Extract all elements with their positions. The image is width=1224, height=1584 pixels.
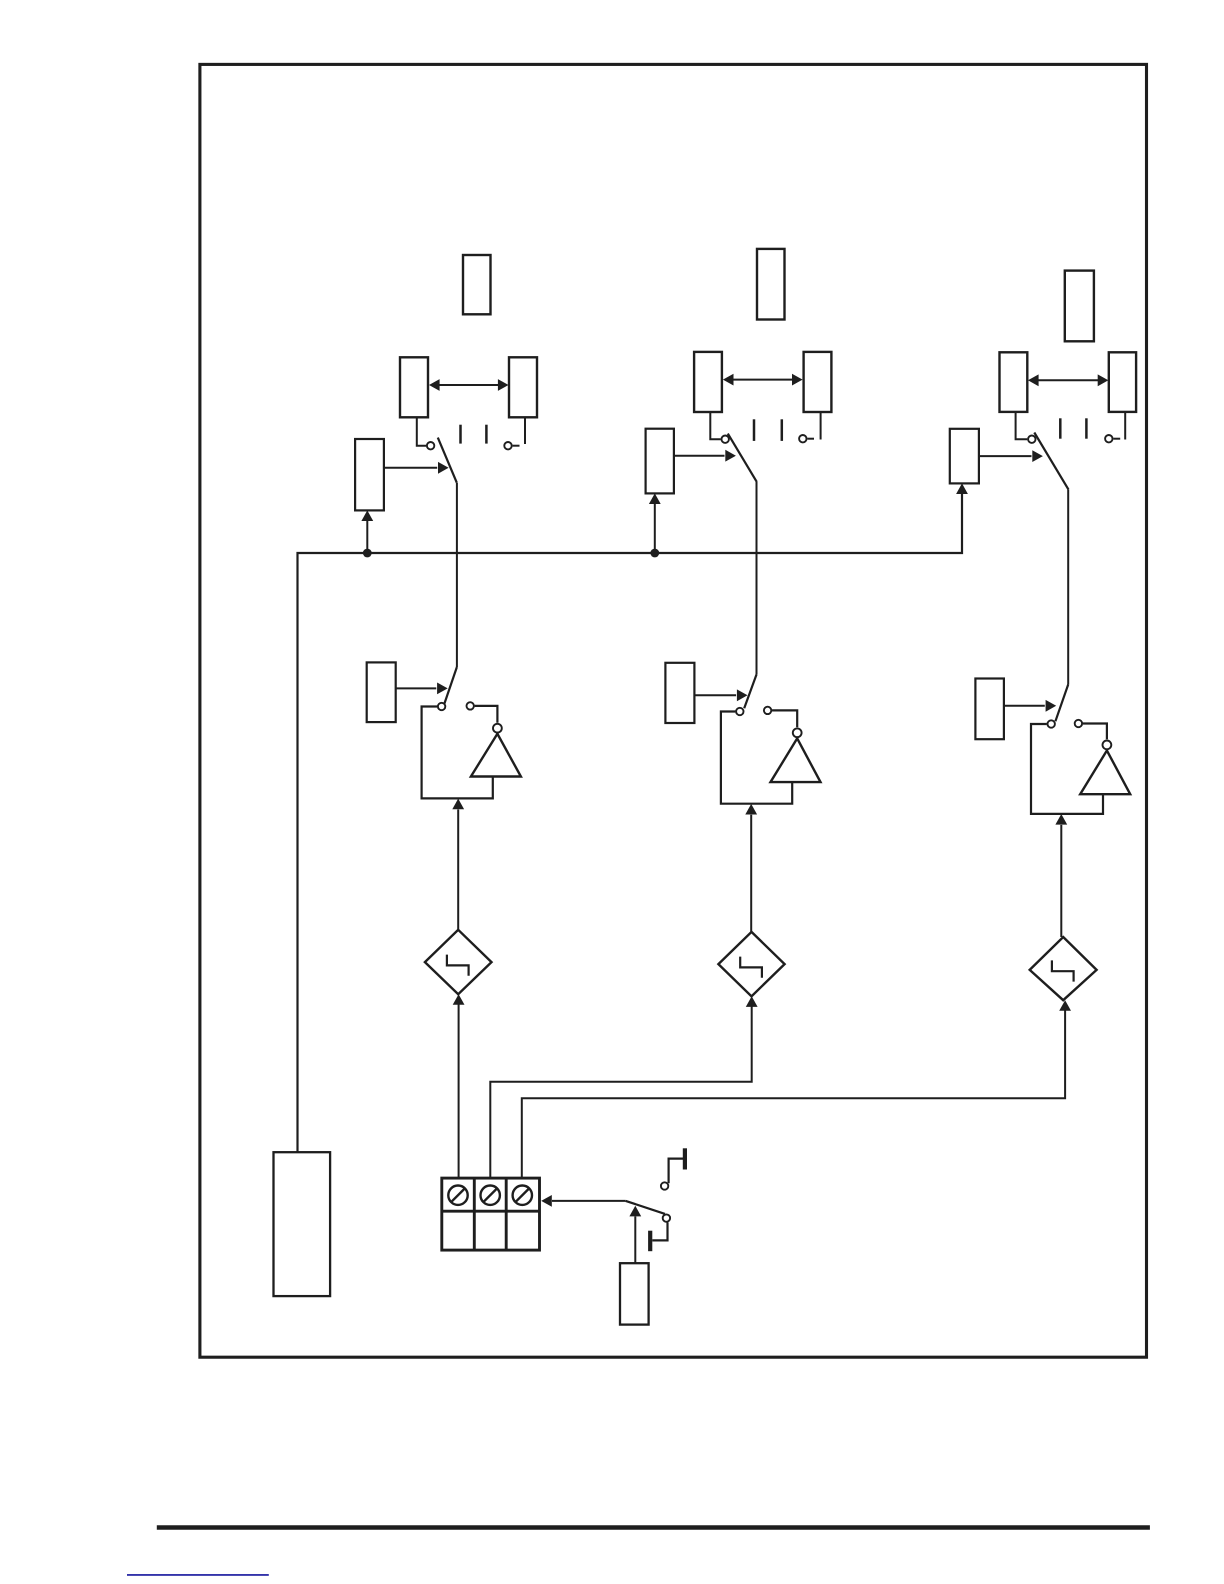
- diamond D3: [1030, 937, 1097, 1000]
- arrow bus up to C3: [649, 493, 661, 553]
- loop wire column 1: [422, 707, 493, 799]
- wire B3 down: [1124, 412, 1126, 440]
- box A3 (column 3 left transfer box): [1000, 352, 1028, 412]
- junction dot column 1: [363, 549, 372, 558]
- contact circle S6 right: [1075, 720, 1082, 727]
- contact circle S7 upper: [661, 1182, 668, 1189]
- diamond D1: [425, 930, 492, 994]
- control box C2 lower: [367, 662, 396, 722]
- terminal block divider horizontal: [442, 1210, 540, 1213]
- contact circle S1 left: [427, 442, 434, 449]
- screw terminal 2: [481, 1186, 500, 1205]
- wire S6 right contact to inverter U3: [1083, 724, 1107, 740]
- stub from S5 right contact: [1113, 438, 1120, 440]
- diamond D2: [718, 932, 784, 996]
- arrow bus up to C1: [361, 510, 373, 553]
- wire S4 right contact to inverter U2: [772, 710, 797, 727]
- contact circle S4 right: [764, 707, 771, 714]
- box K1 (column 1 top label box): [463, 255, 491, 314]
- inverter U3 bubble: [1103, 741, 1112, 750]
- arrow C3 to switch arm S3: [674, 450, 736, 462]
- box B3 (column 3 right transfer box): [1109, 352, 1136, 412]
- step glyph in D2: [740, 957, 762, 978]
- switch arm S5: [1034, 433, 1068, 490]
- loop wire column 2: [721, 712, 792, 804]
- breaker tick 2 column 1: [485, 425, 488, 444]
- switch arm S1: [438, 438, 457, 483]
- arrow diamond D2 to loop column 2: [745, 804, 757, 932]
- arrow C6 to switch arm S6: [1004, 700, 1056, 712]
- footer link underline: [127, 1574, 269, 1576]
- double arrow A2-B2: [723, 374, 803, 386]
- box B2 (column 2 right transfer box): [804, 352, 832, 412]
- box A2 (column 2 left transfer box): [694, 352, 722, 412]
- arrow C2 to switch arm S2: [396, 683, 448, 695]
- wire A2 to switch S3 left contact: [710, 412, 720, 439]
- arrow diamond D1 to loop column 1: [452, 799, 464, 930]
- switch arm S6: [1055, 685, 1068, 722]
- breaker tick 2 column 3: [1085, 418, 1088, 438]
- wire S5 arm down to S6: [1067, 490, 1069, 685]
- control box C5 upper: [950, 429, 979, 484]
- switch arm S7: [626, 1201, 665, 1214]
- inverter U3 triangle: [1080, 751, 1130, 795]
- driver box (bottom switch): [620, 1263, 649, 1324]
- NC terminal T-bar: [683, 1148, 687, 1169]
- contact circle S6 left: [1048, 720, 1055, 727]
- contact circle S4 left: [736, 708, 743, 715]
- step glyph in D3: [1052, 960, 1074, 981]
- contact circle S5 right: [1105, 435, 1112, 442]
- box A1 (column 1 left transfer box): [400, 357, 428, 417]
- wire S2 right contact to inverter U1: [475, 706, 498, 723]
- wire S1 arm down to S2: [456, 483, 458, 667]
- wire terminal 2 up to diamond D2 with arrow: [490, 996, 757, 1178]
- wire terminal 1 up to diamond D1 with arrow: [453, 994, 465, 1178]
- contact circle S5 left: [1028, 436, 1035, 443]
- switch arm S4: [744, 675, 756, 709]
- switch arm S3: [728, 434, 757, 482]
- control box C3 upper: [646, 429, 674, 494]
- footer rule: [157, 1525, 1150, 1530]
- contact circle S1 right: [504, 442, 511, 449]
- main bus wire: [298, 494, 963, 1152]
- stub from S1 right contact: [513, 445, 520, 447]
- junction dot column 2: [650, 549, 659, 558]
- arrow bus up to C5: [956, 483, 968, 494]
- page frame: [200, 64, 1147, 1357]
- wire A3 to switch S5 left contact: [1016, 412, 1028, 439]
- breaker tick 1 column 2: [753, 419, 756, 441]
- inverter U1 triangle: [471, 734, 521, 777]
- wire S7 lower contact to NO terminal: [652, 1223, 667, 1241]
- wire S7 upper contact to NC terminal: [669, 1159, 683, 1184]
- inverter U1 bubble: [493, 724, 502, 733]
- control box C4 lower: [665, 663, 694, 723]
- breaker tick 1 column 3: [1059, 418, 1062, 438]
- wire terminal 3 up to diamond D3 with arrow: [522, 1000, 1071, 1178]
- terminal block divider vertical 1: [473, 1178, 476, 1250]
- contact circle S2 right: [467, 702, 474, 709]
- breaker tick 1 column 1: [459, 425, 462, 444]
- control box C6 lower: [975, 679, 1004, 740]
- arrow C4 to switch arm S4: [694, 689, 747, 701]
- wire B2 down: [820, 412, 822, 440]
- inverter U2 triangle: [771, 738, 821, 782]
- screw terminal 3: [513, 1186, 532, 1205]
- box K2 (column 2 top label box): [757, 249, 785, 320]
- double arrow A1-B1: [429, 379, 509, 391]
- arrow C1 to switch arm S1: [384, 462, 449, 474]
- arrow C5 to switch arm S5: [979, 450, 1043, 462]
- tall box (power supply, bottom left): [274, 1152, 331, 1296]
- contact circle S3 left: [722, 436, 729, 443]
- contact circle S2 left: [438, 703, 445, 710]
- stub from S3 right contact: [807, 438, 814, 440]
- arrow diamond D3 to loop column 3: [1055, 814, 1067, 937]
- wire B1 down: [524, 417, 526, 444]
- contact circle S3 right: [799, 435, 806, 442]
- breaker tick 2 column 2: [781, 419, 784, 441]
- switch arm S2: [444, 667, 457, 704]
- control box C1 upper: [355, 439, 384, 510]
- arrow from switch S7 into terminal block: [541, 1195, 626, 1207]
- box K3 (column 3 top label box): [1065, 271, 1094, 342]
- double arrow A3-B3: [1028, 374, 1108, 386]
- wire S3 arm down to S4: [756, 482, 758, 675]
- terminal block body: [442, 1178, 540, 1250]
- screw terminal 1: [448, 1186, 467, 1205]
- inverter U2 bubble: [793, 728, 802, 737]
- step glyph in D1: [447, 955, 469, 976]
- NO terminal T-bar: [648, 1231, 652, 1252]
- terminal block divider vertical 2: [505, 1178, 508, 1250]
- wire A1 to switch S1 left contact: [417, 417, 426, 445]
- box B1 (column 1 right transfer box): [509, 357, 537, 417]
- loop wire column 3: [1031, 724, 1103, 814]
- contact circle S7 lower: [663, 1214, 670, 1221]
- arrow driver box to switch arm S7: [629, 1206, 641, 1263]
